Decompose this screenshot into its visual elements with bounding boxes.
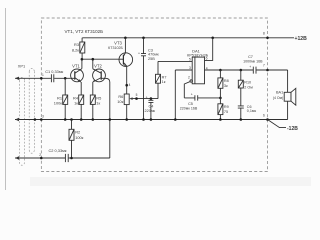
loudspeaker BA1 [284,70,296,120]
resistor R9 [218,98,223,120]
svg-text:-12В: -12В [287,126,298,132]
svg-text:R2: R2 [75,130,80,135]
connector XP1 arrow (common) [15,118,19,121]
svg-text:7: 7 [263,64,265,68]
node DA1 pin6 riser [211,37,214,40]
svg-text:C1 0,33мк: C1 0,33мк [45,69,63,74]
node border terminal 2 [40,157,43,160]
node terminal 8 [266,37,269,40]
transistor VT1 [71,59,84,95]
cable shield 2 (dashed) [19,77,24,165]
svg-text:1к: 1к [96,101,100,106]
resistor R7 [156,61,193,98]
potentiometer R6 [124,94,158,120]
wire input line 1 [15,77,71,79]
svg-text:3: 3 [189,66,191,70]
node terminal 6 [266,118,269,121]
node C3 bottom [142,118,145,121]
capacitor C2 [65,154,68,162]
node VT3 collector [124,37,127,40]
connector XP1 arrow (input 1) [15,77,19,80]
dashed enclosure border [41,18,267,172]
node R4 bottom [80,118,83,121]
capacitor C5 [184,95,220,100]
node R5 bottom [92,118,95,121]
wire +12V rail [82,37,294,39]
wire -12V tap [268,120,287,128]
svg-text:+: + [249,65,251,69]
svg-text:220мк: 220мк [144,109,155,113]
capacitor C4 [148,99,153,120]
svg-text:2: 2 [39,153,41,157]
node border terminal 1 [40,77,43,80]
svg-text:75: 75 [224,110,228,114]
svg-text:5: 5 [136,93,138,97]
svg-text:C4: C4 [148,104,153,108]
connector XP1 arrow (input 2) [15,156,19,159]
cable shield (dashed) [29,68,34,153]
capacitor C1 [51,74,53,82]
svg-text:6: 6 [206,57,208,61]
node C4 bottom [150,118,153,121]
node terminal 7 [266,69,269,72]
node terminal 3 [40,118,43,121]
resistor R2 [69,120,74,159]
node pin3 bottom [174,118,177,121]
svg-text:220мк 16В: 220мк 16В [180,107,198,111]
node C5/R8/R9 [219,97,222,100]
node shield/bus [34,118,37,121]
node VT2 base line [109,118,112,121]
node R6 bottom [125,118,128,121]
node R3/VT1 [81,58,84,61]
svg-text:8: 8 [263,32,265,36]
op-amp IC DA1 [192,57,204,84]
svg-text:100к: 100к [75,135,83,140]
transistor VT2 (mirrored) [93,59,110,158]
capacitor C7 [253,67,256,74]
node R2 bottom [70,157,73,160]
svg-text:6: 6 [263,114,265,118]
wire common bus [15,119,288,121]
svg-text:C7: C7 [248,55,253,59]
svg-text:R4: R4 [73,95,79,100]
svg-text:2: 2 [188,76,190,80]
capacitor C3 [141,38,146,120]
node C3 top [142,37,145,40]
svg-text:25В: 25В [148,57,155,61]
svg-text:КТ3102Б: КТ3102Б [108,46,123,50]
svg-text:R5: R5 [96,95,101,100]
svg-text:1к: 1к [162,80,166,84]
svg-text:R9: R9 [224,105,229,109]
page background [0,0,311,195]
svg-text:R7: R7 [162,75,167,79]
svg-text:VT1: VT1 [72,64,80,69]
svg-text:+: + [146,96,148,100]
node R1 bottom [64,118,67,121]
svg-text:BA1: BA1 [276,91,283,95]
resistor R5 [90,95,95,120]
pin 2 wire with bubble [190,80,192,82]
node R8 top [219,69,222,72]
svg-text:8,2к: 8,2к [72,47,79,52]
svg-text:100к: 100к [54,101,62,106]
svg-text:C2 0,33мк: C2 0,33мк [49,148,67,153]
svg-text:5: 5 [189,57,191,61]
svg-text:XP1: XP1 [18,63,25,68]
svg-text:R3: R3 [74,42,79,47]
capacitor C6 [238,106,244,120]
svg-text:C5: C5 [188,102,193,106]
svg-text:1000мк 16В: 1000мк 16В [243,59,263,63]
resistor R1 [63,78,68,119]
svg-text:3: 3 [42,114,44,118]
svg-text:(4 Ом): (4 Ом) [273,96,283,100]
svg-text:10к: 10к [117,99,123,104]
wire input line 2 [15,157,110,159]
resistor R4 [79,95,84,120]
svg-text:VT1, VT2 КТ3102Б: VT1, VT2 КТ3102Б [65,29,104,34]
pin 3 wire [175,70,192,120]
node wiper junction [135,97,138,100]
node R10 top [240,69,243,72]
resistor R10 [238,70,243,106]
node R2 top [70,118,73,121]
svg-text:1к: 1к [74,101,78,106]
wire collector node line [81,58,119,60]
svg-text:1: 1 [42,73,44,77]
resistor R8 [218,70,223,98]
node C6 bottom [240,118,243,121]
node C4 top [150,97,153,100]
resistor R3 [80,38,85,59]
node R1 top [64,77,67,80]
svg-text:4: 4 [206,66,208,70]
node VT3 emitter / VT2 base tap [125,84,128,87]
pin 6 wire [205,38,213,61]
svg-text:+12В: +12В [295,36,308,42]
svg-text:R10: R10 [244,81,251,85]
pin 4 output wire [205,69,288,71]
svg-text:VT2: VT2 [94,64,102,69]
transistor VT3 [119,38,133,94]
svg-text:2 Ом: 2 Ом [244,85,253,89]
svg-text:+: + [138,52,140,56]
svg-text:+: + [191,92,193,96]
svg-text:R8: R8 [224,79,229,83]
node R9 bottom [219,118,222,121]
svg-text:4: 4 [129,83,131,87]
svg-text:0,1мк: 0,1мк [247,109,257,113]
node VT2 collector [92,58,95,61]
svg-text:R1: R1 [57,95,62,100]
svg-text:3к: 3к [224,84,228,88]
